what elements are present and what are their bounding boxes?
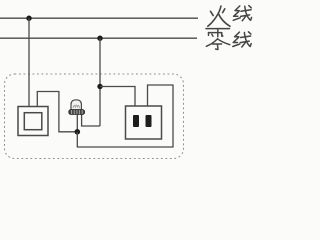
- node J1 on live line: [26, 16, 31, 21]
- wire: live line 火线: [0, 17, 198, 19]
- lamp L1 filament squiggle: [73, 105, 80, 108]
- wire: lamp right leg down and right to x=100 riser: [82, 114, 100, 127]
- lamp L1 dome: [71, 100, 81, 110]
- switch S1 outer square: [18, 107, 48, 136]
- node J4 under lamp: [75, 129, 81, 135]
- wire: switch right terminal up, right, down to lamp junction J4: [37, 92, 75, 132]
- socket X1 left slot: [133, 115, 139, 127]
- node J3 branch point: [97, 84, 102, 89]
- switch S1 inner square: [24, 113, 42, 130]
- label 火线 (live wire): [208, 6, 230, 26]
- label 线 (upper): [233, 6, 251, 21]
- wire: J4 down, along bottom, up right side, to socket right terminal: [77, 85, 173, 147]
- label 线 (lower): [233, 32, 251, 47]
- socket X1 right slot: [146, 115, 152, 127]
- node J2 on neutral line: [97, 36, 102, 41]
- wire: neutral line 零线: [0, 37, 197, 39]
- wire: J2 down through J3 to lamp right leg level: [99, 38, 101, 126]
- lamp L1 base thread lines: [72, 110, 83, 114]
- wire: J1 down to switch left terminal: [28, 18, 30, 106]
- socket X1 body: [126, 106, 162, 139]
- enclosure: dashed rounded box: [5, 74, 184, 159]
- label 零 (zero): [206, 29, 230, 50]
- wire: J3 right then down to socket left terminal: [100, 87, 135, 107]
- lamp L1 screw base: [69, 110, 85, 115]
- wire: lamp centre leg down to J4: [76, 114, 78, 132]
